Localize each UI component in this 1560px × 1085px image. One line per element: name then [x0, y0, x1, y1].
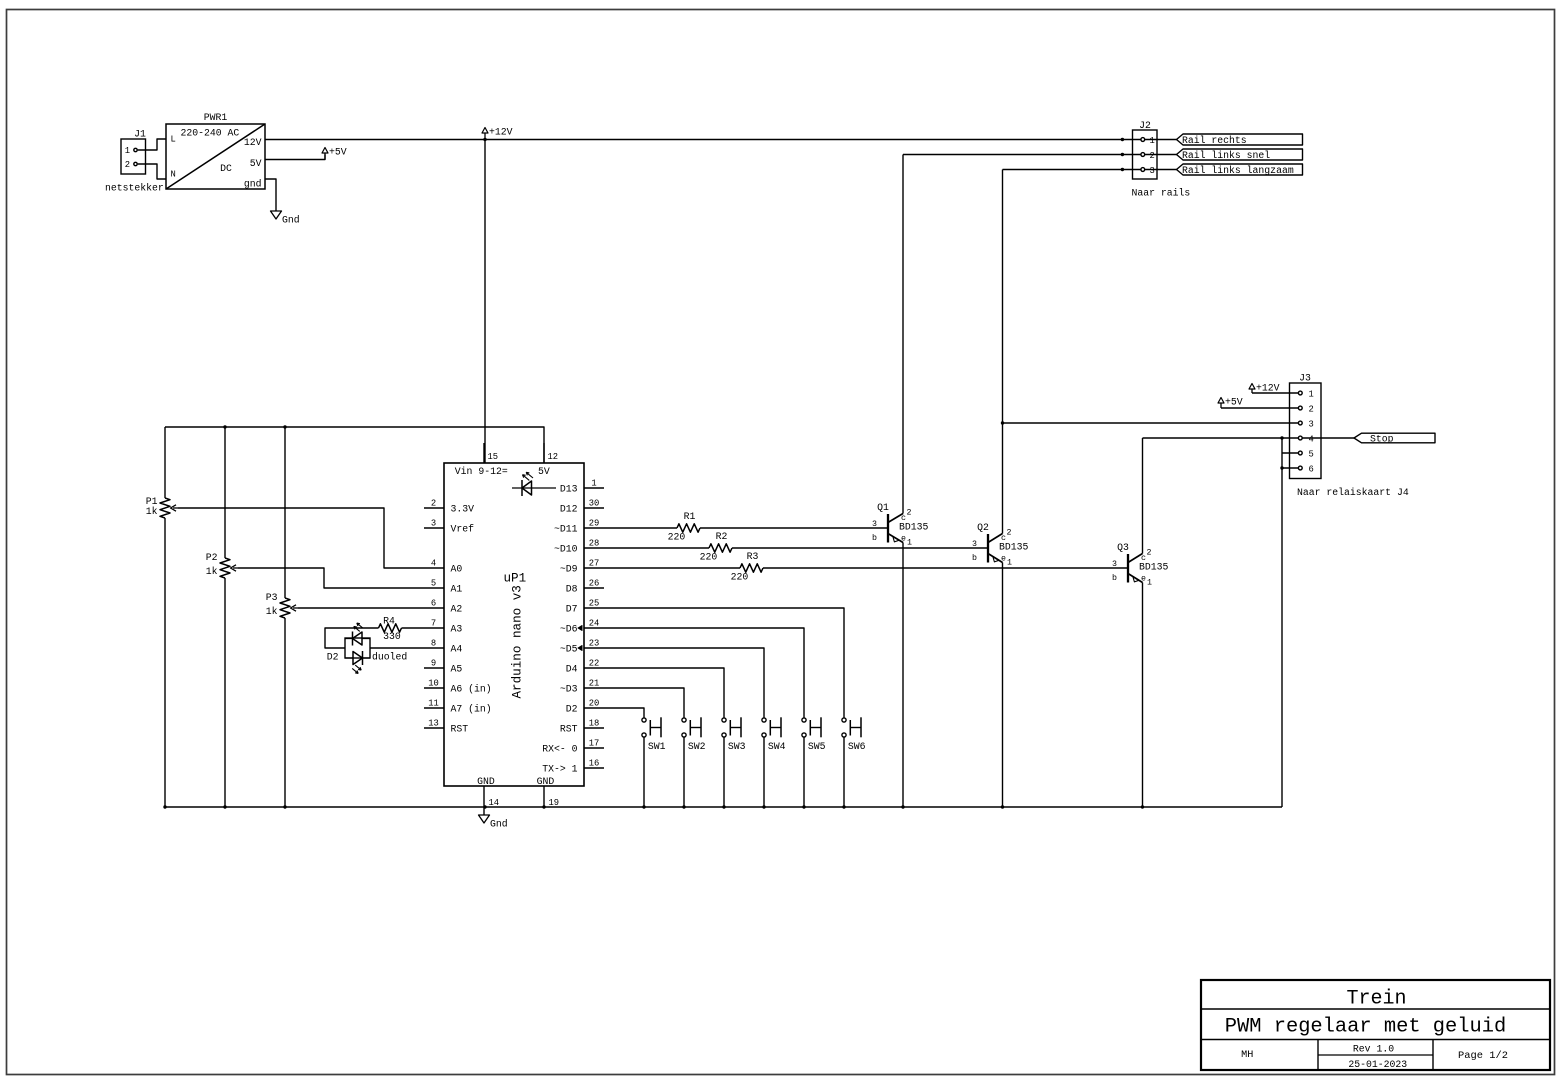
wire Q2 collector to J2.3	[1003, 169, 1141, 171]
uP1 pin 8 A4	[424, 639, 462, 655]
wire P1 top column	[164, 427, 166, 498]
svg-text:Rail links langzaam: Rail links langzaam	[1182, 165, 1294, 176]
svg-text:30: 30	[589, 499, 600, 509]
svg-text:SW1: SW1	[648, 741, 666, 752]
svg-text:b: b	[872, 533, 877, 543]
svg-text:1: 1	[1007, 559, 1012, 568]
resistor R2 220	[700, 531, 732, 562]
wire J3.6	[1282, 467, 1298, 469]
junction GND bus x=1142.5	[1141, 805, 1144, 808]
power +5V symbol at J3	[1220, 403, 1222, 408]
svg-text:duoled: duoled	[372, 652, 407, 663]
wire uP1 to SW3	[604, 668, 724, 718]
wire Q3 emitter to GND bus	[1142, 583, 1144, 808]
uP1 pin 3 Vref	[424, 519, 474, 535]
svg-text:Q1: Q1	[877, 502, 889, 513]
uP1 pin 27 ~D9	[560, 559, 604, 575]
wire P3 wiper to uP1 A2	[298, 607, 424, 609]
wire uP1 A4 to duoled right terminal	[370, 647, 424, 649]
svg-text:1: 1	[591, 479, 596, 489]
junction GND bus x=544	[542, 805, 545, 808]
junction GND bus x=285	[283, 805, 286, 808]
junction GND bus x=485	[483, 805, 486, 808]
svg-text:Gnd: Gnd	[282, 215, 300, 226]
svg-text:5: 5	[431, 579, 436, 589]
svg-text:TX-> 1: TX-> 1	[542, 763, 577, 774]
svg-text:+5V: +5V	[1225, 397, 1243, 408]
svg-text:BD135: BD135	[999, 542, 1029, 553]
junction GND bus x=225	[223, 805, 226, 808]
svg-text:21: 21	[589, 679, 600, 689]
switch SW3	[722, 717, 746, 752]
svg-text:Rev 1.0: Rev 1.0	[1353, 1043, 1394, 1054]
wire uP1 to SW5	[604, 628, 804, 718]
svg-text:17: 17	[589, 739, 600, 749]
uP1 pin 9 A5	[424, 659, 462, 675]
wire Q1 emitter to GND bus	[902, 543, 904, 808]
label Stop	[1354, 433, 1435, 443]
svg-text:220-240 AC: 220-240 AC	[181, 128, 240, 139]
wire SW6 to GND bus	[843, 737, 845, 807]
svg-text:Arduino nano v3: Arduino nano v3	[511, 585, 525, 698]
uP1 pin 17 RX<- 0	[542, 739, 604, 755]
wire SW4 to GND bus	[763, 737, 765, 807]
uP1 pin 28 ~D10	[554, 539, 604, 555]
svg-text:3: 3	[431, 519, 436, 529]
svg-text:1: 1	[125, 146, 130, 156]
wire P1 bottom column to GND bus	[164, 518, 166, 807]
uP1 pin 26 D8	[566, 579, 604, 595]
svg-text:Gnd: Gnd	[490, 819, 508, 830]
svg-text:SW5: SW5	[808, 741, 826, 752]
svg-text:SW2: SW2	[688, 741, 706, 752]
svg-text:R2: R2	[716, 531, 728, 542]
potentiometer P1 1k	[146, 496, 178, 518]
wire J2.3 to label Rail links langzaam	[1145, 169, 1177, 171]
label Rail rechts	[1177, 134, 1303, 145]
junction on wire to J2.3	[1121, 168, 1124, 171]
svg-text:2: 2	[1007, 529, 1012, 538]
svg-text:A1: A1	[451, 583, 463, 594]
wire uP1 to SW2	[604, 688, 684, 718]
svg-text:2: 2	[1147, 549, 1152, 558]
junction J3.4 column	[1280, 436, 1283, 439]
wire SW2 to GND bus	[683, 737, 685, 807]
svg-text:26: 26	[589, 579, 600, 589]
svg-text:~D6: ~D6	[560, 623, 578, 634]
svg-text:5V: 5V	[538, 466, 550, 477]
svg-text:13: 13	[428, 719, 439, 729]
wire uP1 to resistor R2	[604, 547, 709, 549]
uP1 pin 13 RST	[424, 719, 468, 735]
svg-text:8: 8	[431, 639, 436, 649]
svg-text:~D11: ~D11	[554, 523, 578, 534]
svg-text:b: b	[972, 553, 977, 563]
wire J3.5	[1282, 452, 1298, 454]
svg-text:1: 1	[1147, 579, 1152, 588]
svg-text:b: b	[1112, 573, 1117, 583]
connector J1 netstekker	[105, 129, 164, 194]
potentiometer P3 1k	[266, 592, 298, 618]
transistor Q1 BD135	[872, 502, 929, 548]
wire +12V down to uP1 Vin pin 15	[484, 140, 486, 464]
svg-text:16: 16	[589, 759, 600, 769]
switch SW1	[642, 717, 666, 752]
svg-text:5V: 5V	[250, 158, 262, 169]
svg-text:A4: A4	[451, 643, 463, 654]
wire R2 to Q2 base	[732, 547, 987, 549]
svg-text:N: N	[171, 170, 176, 180]
svg-text:Naar relaiskaart J4: Naar relaiskaart J4	[1297, 487, 1409, 498]
wire SW3 to GND bus	[723, 737, 725, 807]
wire uP1 to SW4	[604, 648, 764, 718]
svg-text:R3: R3	[747, 551, 759, 562]
wire P3 bottom column to GND bus	[284, 618, 286, 807]
svg-text:R1: R1	[684, 511, 696, 522]
junction GND bus x=1002.5	[1001, 805, 1004, 808]
junction on wire to J2.2	[1121, 153, 1124, 156]
svg-text:RST: RST	[451, 723, 469, 734]
svg-text:D13: D13	[560, 483, 578, 494]
uP1 pin 7 A3	[424, 619, 462, 635]
wire PWR1.gnd down	[265, 179, 276, 211]
svg-text:220: 220	[668, 531, 686, 542]
svg-text:+12V: +12V	[1256, 383, 1280, 394]
uP1 pin 30 D12	[560, 499, 604, 515]
wire +12V to J3.1	[1252, 392, 1298, 394]
svg-text:220: 220	[731, 571, 749, 582]
connector J2 naar rails	[1132, 120, 1191, 199]
resistor R1 220	[668, 511, 700, 542]
svg-text:15: 15	[488, 452, 499, 462]
svg-text:2: 2	[1309, 404, 1314, 414]
svg-text:BD135: BD135	[1139, 562, 1169, 573]
svg-text:A2: A2	[451, 603, 463, 614]
svg-text:Naar rails: Naar rails	[1132, 188, 1191, 199]
uP1 pin 20 D2	[566, 699, 604, 715]
svg-text:12: 12	[548, 452, 559, 462]
svg-text:23: 23	[589, 639, 600, 649]
svg-text:RX<- 0: RX<- 0	[542, 743, 577, 754]
wire J1.1 to PWR1.L	[138, 139, 166, 150]
svg-text:D4: D4	[566, 663, 578, 674]
wire P2 bottom column to GND bus	[224, 578, 226, 807]
svg-text:GND: GND	[477, 776, 495, 787]
potentiometer P2 1k	[206, 552, 238, 578]
junction +12V rail at Vin column	[483, 138, 486, 141]
svg-text:1k: 1k	[206, 566, 218, 577]
svg-text:e: e	[1141, 575, 1146, 584]
svg-text:+12V: +12V	[489, 127, 513, 138]
junction on wire to J2.1	[1121, 138, 1124, 141]
uP1 pin 5 A1	[424, 579, 462, 595]
svg-text:2: 2	[431, 499, 436, 509]
svg-text:24: 24	[589, 619, 600, 629]
wire GND bus	[165, 806, 1282, 808]
svg-text:SW6: SW6	[848, 741, 866, 752]
svg-text:20: 20	[589, 699, 600, 709]
wire uP1 to SW1	[604, 708, 644, 718]
wire uP1 to resistor R1	[604, 527, 677, 529]
wire P3 top column	[284, 427, 286, 598]
svg-text:DC: DC	[220, 163, 232, 174]
wire Q3 collector up	[1142, 438, 1144, 554]
junction GND bus x=684	[682, 805, 685, 808]
svg-text:7: 7	[431, 619, 436, 629]
svg-text:~D3: ~D3	[560, 683, 578, 694]
svg-text:D2: D2	[566, 703, 578, 714]
svg-text:Rail links snel: Rail links snel	[1182, 150, 1270, 161]
uP1 pin 1 D13	[560, 479, 604, 495]
svg-text:uP1: uP1	[504, 572, 527, 586]
svg-text:e: e	[1001, 555, 1006, 564]
svg-text:D8: D8	[566, 583, 578, 594]
svg-text:D12: D12	[560, 503, 578, 514]
svg-text:e: e	[901, 535, 906, 544]
svg-text:28: 28	[589, 539, 600, 549]
svg-text:J3: J3	[1299, 373, 1311, 384]
uP1 pin 2 3.3V	[424, 499, 474, 515]
uP1 pin 12 5V	[544, 443, 558, 463]
ground symbol below uP1 pin 14	[479, 815, 490, 823]
wire +5V to J3.2	[1221, 407, 1298, 409]
power supply PWR1 220-240AC to 12V/5V DC	[166, 112, 265, 190]
svg-text:1: 1	[1309, 389, 1314, 399]
title block	[1201, 980, 1550, 1070]
svg-text:SW3: SW3	[728, 741, 746, 752]
svg-text:netstekker: netstekker	[105, 183, 164, 194]
junction GND bus x=644	[642, 805, 645, 808]
svg-text:J2: J2	[1139, 120, 1151, 131]
wire P2 top column	[224, 427, 226, 558]
wire PWR1.5V to +5V symbol	[265, 155, 325, 160]
svg-text:Vin 9-12=: Vin 9-12=	[455, 466, 508, 477]
uP1 pin 25 D7	[566, 599, 604, 615]
uP1 pin 18 RST	[560, 719, 604, 735]
svg-text:11: 11	[428, 699, 439, 709]
svg-text:Q3: Q3	[1117, 542, 1129, 553]
svg-text:220: 220	[700, 551, 718, 562]
label Rail links langzaam	[1177, 164, 1303, 175]
wire uP1 A3 to resistor R4	[402, 627, 425, 629]
power +5V symbol near PWR1	[324, 153, 326, 160]
svg-text:3: 3	[1150, 166, 1155, 176]
svg-text:27: 27	[589, 559, 600, 569]
svg-text:1k: 1k	[266, 606, 278, 617]
wire SW1 to GND bus	[643, 737, 645, 807]
svg-text:PWR1: PWR1	[204, 112, 228, 123]
svg-text:PWM regelaar met geluid: PWM regelaar met geluid	[1225, 1015, 1506, 1038]
svg-text:6: 6	[1309, 464, 1314, 474]
wire uP1 to SW6	[604, 608, 844, 718]
wire 5V rail to uP1 pin 12	[165, 427, 544, 463]
wire P2 wiper to uP1 A1	[238, 568, 424, 588]
svg-text:A3: A3	[451, 623, 463, 634]
junction GND bus x=844	[842, 805, 845, 808]
svg-text:3: 3	[872, 520, 877, 529]
svg-text:330: 330	[383, 631, 401, 642]
wire J2.2 to label Rail links snel	[1145, 154, 1177, 156]
svg-text:12V: 12V	[244, 137, 262, 148]
switch SW4	[762, 717, 786, 752]
svg-text:4: 4	[1309, 434, 1314, 444]
switch SW2	[682, 717, 706, 752]
svg-text:1k: 1k	[146, 506, 158, 517]
svg-text:Q2: Q2	[977, 522, 989, 533]
svg-text:6: 6	[431, 599, 436, 609]
svg-text:22: 22	[589, 659, 600, 669]
svg-text:25-01-2023: 25-01-2023	[1348, 1059, 1407, 1070]
wire P1 wiper to uP1 A0	[178, 508, 424, 568]
uP1 pin 23 ~D5	[560, 639, 604, 655]
uP1 pin 4 A0	[424, 559, 462, 575]
svg-text:3.3V: 3.3V	[451, 503, 475, 514]
junction GND bus x=724	[722, 805, 725, 808]
wire R1 to Q1 base	[700, 527, 887, 529]
svg-text:P3: P3	[266, 592, 278, 603]
svg-text:~D5: ~D5	[560, 643, 578, 654]
uP1 pin 29 ~D11	[554, 519, 604, 535]
junction GND bus x=764	[762, 805, 765, 808]
svg-text:Stop: Stop	[1370, 434, 1394, 445]
junction 5V rail at P3	[283, 425, 286, 428]
junction GND bus x=903	[901, 805, 904, 808]
wire Q1 collector up	[902, 155, 904, 514]
svg-text:GND: GND	[537, 776, 555, 787]
microcontroller uP1 Arduino nano v3	[444, 463, 584, 786]
svg-text:~D9: ~D9	[560, 563, 578, 574]
svg-text:5: 5	[1309, 449, 1314, 459]
wire J1.2 to PWR1.N	[138, 164, 166, 179]
wire R3 to Q3 base	[763, 567, 1127, 569]
wire Q1 collector to J2.2	[903, 154, 1141, 156]
uP1 pin 11 A7 (in)	[424, 699, 492, 715]
svg-text:RST: RST	[560, 723, 578, 734]
led D13 internal indicator	[512, 472, 556, 496]
svg-text:29: 29	[589, 519, 600, 529]
wire Q2 emitter to GND bus	[1002, 563, 1004, 808]
svg-text:R4: R4	[383, 616, 395, 627]
power +12V symbol on rail	[484, 133, 486, 140]
wire Q2 collector to J3.3	[1003, 422, 1299, 424]
uP1 pin 21 ~D3	[560, 679, 604, 695]
svg-text:10: 10	[428, 679, 439, 689]
transistor Q2 BD135	[972, 522, 1029, 568]
svg-text:~D10: ~D10	[554, 543, 578, 554]
led D2 duoled	[327, 623, 408, 673]
wire J2.1 to label Rail rechts	[1145, 139, 1177, 141]
wire Q3 collector to J3.4	[1143, 437, 1299, 439]
power +12V symbol at J3	[1251, 389, 1253, 393]
svg-text:1: 1	[1150, 136, 1155, 146]
svg-text:+5V: +5V	[329, 147, 347, 158]
svg-text:BD135: BD135	[899, 522, 929, 533]
transistor Q3 BD135	[1112, 542, 1169, 588]
wire vertical J3.4/5/6 column to GND bus	[1281, 438, 1283, 807]
junction Q2 collector to J3.3	[1001, 421, 1004, 424]
wire uP1 to resistor R3	[604, 567, 740, 569]
resistor R4 330	[379, 616, 402, 642]
svg-text:J1: J1	[134, 129, 146, 140]
svg-text:D2: D2	[327, 652, 339, 663]
wire J3.4 to label Stop	[1302, 437, 1354, 439]
label Rail links snel	[1177, 149, 1303, 160]
svg-text:A0: A0	[451, 563, 463, 574]
svg-text:2: 2	[907, 509, 912, 518]
svg-text:Trein: Trein	[1346, 988, 1406, 1011]
svg-text:4: 4	[431, 559, 436, 569]
wire +12V rail from PWR1.12V to J2.1	[265, 139, 1141, 141]
svg-text:P2: P2	[206, 552, 218, 563]
resistor R3 220	[731, 551, 763, 582]
switch SW5	[802, 717, 826, 752]
svg-text:3: 3	[1112, 560, 1117, 569]
wire R4 to duoled left terminal	[325, 628, 379, 648]
uP1 pin 16 TX-> 1	[542, 759, 604, 775]
svg-text:18: 18	[589, 719, 600, 729]
switch SW6	[842, 717, 866, 752]
svg-text:2: 2	[125, 160, 130, 170]
svg-text:Vref: Vref	[451, 523, 475, 534]
svg-text:D7: D7	[566, 603, 578, 614]
svg-text:2: 2	[1150, 151, 1155, 161]
junction 5V rail at P2	[223, 425, 226, 428]
uP1 pin 14 GND	[477, 776, 499, 815]
uP1 pin 19 GND	[537, 776, 559, 808]
svg-text:MH: MH	[1241, 1050, 1253, 1061]
wire Q2 collector up	[1002, 170, 1004, 534]
uP1 pin 22 D4	[566, 659, 604, 675]
uP1 pin 10 A6 (in)	[424, 679, 492, 695]
svg-text:A6 (in): A6 (in)	[451, 683, 492, 694]
ground symbol below PWR1	[271, 211, 282, 219]
svg-text:A7 (in): A7 (in)	[451, 703, 492, 714]
uP1 pin 6 A2	[424, 599, 462, 615]
svg-text:L: L	[171, 135, 176, 145]
svg-text:Page 1/2: Page 1/2	[1458, 1050, 1508, 1062]
svg-text:9: 9	[431, 659, 436, 669]
svg-text:gnd: gnd	[244, 179, 262, 190]
uP1 pin 24 ~D6	[560, 619, 604, 635]
svg-text:Rail rechts: Rail rechts	[1182, 135, 1247, 146]
connector J3 naar relaiskaart	[1290, 373, 1409, 498]
uP1 pin 15 Vin	[484, 443, 498, 463]
junction GND bus x=804	[802, 805, 805, 808]
svg-text:25: 25	[589, 599, 600, 609]
svg-text:1: 1	[907, 539, 912, 548]
wire SW5 to GND bus	[803, 737, 805, 807]
svg-text:SW4: SW4	[768, 741, 786, 752]
junction J3.6 column	[1280, 466, 1283, 469]
svg-text:3: 3	[972, 540, 977, 549]
svg-text:A5: A5	[451, 663, 463, 674]
svg-text:3: 3	[1309, 419, 1314, 429]
junction GND bus x=165	[163, 805, 166, 808]
